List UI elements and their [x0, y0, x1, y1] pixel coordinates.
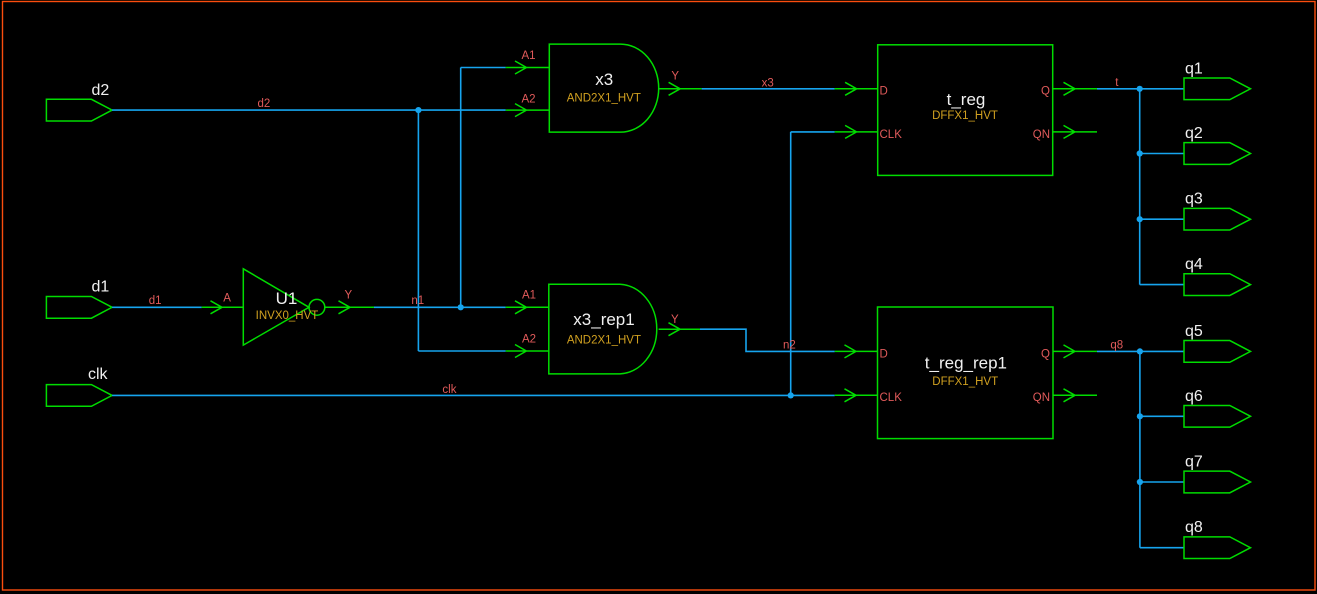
svg-text:A1: A1 [522, 289, 536, 301]
junction on q8 net at q6 [1137, 413, 1143, 419]
svg-text:Y: Y [671, 314, 679, 326]
wire t net [1097, 89, 1184, 285]
svg-text:A: A [223, 292, 231, 304]
svg-text:d1: d1 [149, 295, 162, 307]
junction on n1 net [458, 304, 464, 310]
svg-text:clk: clk [88, 366, 109, 383]
svg-text:A2: A2 [522, 94, 536, 106]
svg-text:q7: q7 [1185, 454, 1203, 471]
svg-text:d2: d2 [92, 82, 110, 99]
U1 pin A stub and arrow [202, 301, 244, 314]
svg-text:INVX0_HVT: INVX0_HVT [256, 310, 319, 322]
svg-text:q8: q8 [1110, 340, 1123, 352]
svg-text:A1: A1 [522, 50, 536, 62]
t_reg pin D stub and arrow [835, 82, 878, 95]
t_reg_rep1 pin QN stub and arrow [1053, 389, 1097, 402]
x3 pin A2 stub and arrow [506, 104, 550, 117]
svg-text:A2: A2 [522, 334, 536, 346]
svg-text:x3_rep1: x3_rep1 [573, 310, 634, 329]
wire q8 net [1097, 351, 1184, 547]
output port q7 [1184, 471, 1251, 493]
U1 pin Y stub and arrow [325, 301, 374, 314]
output port q3 [1184, 208, 1251, 230]
svg-text:x3: x3 [762, 77, 774, 89]
t_reg pin Q stub and arrow [1053, 82, 1097, 95]
input port d2 [46, 99, 112, 121]
svg-text:d1: d1 [92, 278, 110, 295]
svg-text:Y: Y [671, 71, 679, 83]
svg-text:q5: q5 [1185, 323, 1203, 340]
junction on t net at q2 [1137, 150, 1143, 156]
junction on d2 net [415, 107, 421, 113]
output port q2 [1184, 143, 1251, 165]
wire d1 net [112, 306, 202, 308]
svg-text:q2: q2 [1185, 125, 1203, 142]
output port q6 [1184, 405, 1251, 427]
junction on q8 net at q5 [1137, 348, 1143, 354]
svg-text:Q: Q [1041, 348, 1050, 360]
svg-text:t_reg: t_reg [947, 90, 986, 109]
svg-text:n2: n2 [783, 340, 796, 352]
svg-text:QN: QN [1033, 129, 1050, 141]
t_reg_rep1 pin CLK stub and arrow [835, 389, 878, 402]
flip-flop t_reg_rep1 [878, 307, 1054, 439]
x3 pin Y stub and arrow [659, 82, 702, 95]
svg-text:q6: q6 [1185, 388, 1203, 405]
input port clk [46, 385, 112, 407]
x3_rep1 pin A2 stub and arrow [506, 345, 549, 358]
x3 pin A1 stub and arrow [506, 61, 550, 74]
svg-text:q4: q4 [1185, 256, 1203, 273]
svg-text:Y: Y [345, 289, 353, 301]
and gate x3 [549, 44, 658, 132]
junction on clk net [788, 392, 794, 398]
svg-text:Q: Q [1041, 86, 1050, 98]
t_reg pin CLK stub and arrow [835, 125, 878, 138]
x3_rep1 pin Y stub and arrow [659, 323, 700, 336]
input port d1 [46, 297, 112, 319]
output port q5 [1184, 341, 1251, 363]
junction on t net at q1 [1137, 86, 1143, 92]
svg-text:CLK: CLK [880, 392, 903, 404]
svg-text:q3: q3 [1185, 191, 1203, 208]
output port q1 [1184, 78, 1251, 100]
svg-text:t_reg_rep1: t_reg_rep1 [925, 354, 1007, 373]
svg-text:n1: n1 [411, 295, 424, 307]
t_reg_rep1 pin D stub and arrow [835, 345, 878, 358]
svg-text:QN: QN [1033, 392, 1050, 404]
svg-text:AND2X1_HVT: AND2X1_HVT [567, 92, 641, 104]
flip-flop t_reg [878, 45, 1053, 176]
wire n1 net [374, 68, 506, 308]
svg-text:D: D [880, 86, 888, 98]
svg-text:AND2X1_HVT: AND2X1_HVT [567, 334, 641, 346]
svg-text:DFFX1_HVT: DFFX1_HVT [932, 376, 998, 388]
t_reg pin QN stub and arrow [1053, 125, 1097, 138]
svg-text:U1: U1 [276, 289, 298, 308]
junction on q8 net at q7 [1137, 479, 1143, 485]
output port q8 [1184, 537, 1251, 559]
x3_rep1 pin A1 stub and arrow [506, 301, 549, 314]
svg-text:CLK: CLK [880, 129, 903, 141]
svg-text:x3: x3 [595, 70, 613, 89]
svg-text:q8: q8 [1185, 519, 1203, 536]
svg-text:d2: d2 [258, 98, 271, 110]
svg-text:DFFX1_HVT: DFFX1_HVT [932, 110, 998, 122]
wire clk net [112, 132, 835, 396]
t_reg_rep1 pin Q stub and arrow [1053, 345, 1097, 358]
svg-text:D: D [880, 348, 888, 360]
wire n2 net [700, 329, 835, 351]
wire d2 net [112, 110, 506, 351]
svg-text:q1: q1 [1185, 60, 1203, 77]
inverter U1 [243, 269, 324, 345]
junction on t net at q3 [1137, 216, 1143, 222]
svg-text:clk: clk [442, 384, 456, 396]
and gate x3_rep1 [549, 284, 657, 374]
wire x3 net [702, 88, 835, 90]
output port q4 [1184, 274, 1251, 296]
